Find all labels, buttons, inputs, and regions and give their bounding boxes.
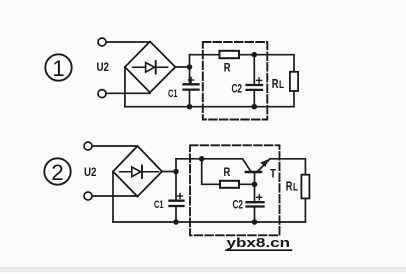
wire top rail C2 node to RL (circuit 1) (254, 55, 294, 72)
wire bridge left vertex down to bottom rail (124, 67, 126, 107)
wire top terminal to bridge top vertex (circuit 2) (93, 145, 138, 147)
wire emitter rail to RL (circuit 2) (270, 159, 305, 175)
load resistor RL (circuit 1) (290, 72, 298, 91)
wire bridge right vertex to C1 node (circuit 2) (162, 171, 176, 173)
svg-text:U2: U2 (84, 165, 97, 179)
transistor T (circuit 2) (243, 159, 271, 185)
svg-text:1: 1 (52, 56, 65, 81)
plus polarity mark of C2 (circuit 1) (257, 78, 262, 83)
capacitor C2 (circuit 1) (247, 55, 263, 107)
svg-text:R: R (224, 61, 231, 75)
wire bottom terminal to bridge bottom vertex (107, 92, 151, 94)
svg-text:C2: C2 (232, 84, 243, 96)
wire top rail from C1 to R (circuit 1) (190, 54, 220, 56)
svg-text:L: L (279, 79, 284, 91)
bottom rail wire (circuit 2) (113, 221, 305, 223)
plus polarity mark of C2 (circuit 2) (257, 195, 262, 200)
junction dot C1 bottom (circuit 1) (187, 104, 193, 110)
svg-text:2: 2 (51, 160, 64, 185)
wire top terminal to bridge top vertex (107, 41, 151, 43)
wire bridge right vertex to C1 node (175, 66, 189, 68)
wire RL bottom to bottom rail (circuit 1) (293, 91, 295, 107)
capacitor C2 (circuit 2) (247, 184, 264, 222)
wire RL bottom to bottom rail (circuit 2) (304, 198, 306, 222)
svg-text:C2: C2 (233, 200, 244, 212)
input terminal bottom (circuit 1) (98, 90, 106, 98)
junction dot R branch on top rail (circuit 2) (199, 156, 205, 162)
junction dot at C1 top branch (circuit 1) (187, 64, 193, 70)
junction dot at C1 branch (circuit 2) (173, 169, 179, 175)
svg-text:C1: C1 (154, 199, 164, 211)
wire R to C2 node (239, 54, 254, 56)
bottom divider line (0, 268, 406, 271)
svg-text:R: R (224, 165, 231, 179)
bridge rectifier D2 (diamond, circuit 2) (113, 146, 162, 197)
input terminal top (circuit 1) (98, 38, 106, 46)
junction dot top of C2 (circuit 1) (252, 52, 258, 58)
capacitor C1 (circuit 1) (184, 55, 199, 107)
bridge rectifier D1 (diamond, circuit 1) (125, 42, 175, 93)
dashed filter box (circuit 2) (190, 145, 280, 235)
wire R to base node (circuit 2) (239, 183, 255, 185)
plus polarity mark of C1 (circuit 2) (178, 194, 183, 199)
svg-text:ybx8.cn: ybx8.cn (227, 235, 291, 250)
junction dot base/C2 node (circuit 2) (252, 182, 258, 188)
junction dot C2 bottom (circuit 1) (252, 104, 258, 110)
wire bridge left vertex down to bottom rail (circuit 2) (112, 172, 114, 223)
wire top rail C1 to collector (circuit 2) (176, 158, 243, 160)
svg-text:U2: U2 (97, 60, 110, 74)
circuit number label 1 (45, 54, 71, 81)
svg-text:T: T (270, 167, 277, 181)
circuit number label 2 (44, 158, 70, 185)
plus polarity mark of C1 (circuit 1) (189, 78, 194, 83)
junction dot C1 bottom (circuit 2) (173, 219, 179, 225)
diode symbol inside bridge D1 (133, 61, 168, 74)
svg-text:R: R (272, 77, 279, 91)
svg-text:L: L (293, 182, 298, 194)
load resistor RL (circuit 2) (301, 175, 309, 199)
resistor R (circuit 1) (220, 51, 240, 58)
svg-text:C1: C1 (168, 88, 178, 100)
wire R branch down and to R (circuit 2) (202, 159, 220, 185)
bottom rail wire (circuit 1) (125, 106, 294, 108)
wire bottom terminal to bridge bottom vertex (circuit 2) (93, 195, 138, 197)
input terminal bottom (circuit 2) (84, 192, 92, 200)
svg-text:R: R (286, 180, 293, 194)
input terminal top (circuit 2) (84, 142, 92, 150)
dashed filter box (circuit 1) (203, 42, 267, 120)
resistor R (circuit 2) (220, 181, 239, 188)
diode symbol inside bridge D2 (120, 166, 159, 179)
junction dot C2 bottom (circuit 2) (252, 219, 258, 225)
capacitor C1 (circuit 2) (170, 159, 184, 222)
watermark ybx8.cn (226, 235, 292, 250)
